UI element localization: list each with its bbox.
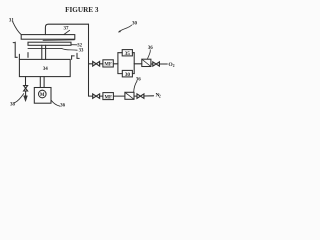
svg-text:2: 2 bbox=[173, 64, 175, 68]
svg-text:38: 38 bbox=[10, 103, 16, 108]
svg-text:30: 30 bbox=[132, 21, 138, 26]
filter U5 row2 bbox=[125, 92, 134, 99]
svg-text:MF: MF bbox=[104, 95, 112, 100]
svg-text:36: 36 bbox=[60, 104, 66, 109]
filter U3 row1 bbox=[142, 59, 151, 66]
MFC U4 row2 bbox=[103, 93, 114, 100]
chamber left wall stub bbox=[18, 54, 20, 59]
wire bbox=[100, 95, 103, 97]
svg-text:FIGURE 3: FIGURE 3 bbox=[65, 6, 99, 14]
wire bbox=[151, 63, 153, 65]
wire branch2 out bbox=[132, 73, 134, 75]
wire to filter2 bbox=[113, 95, 125, 97]
chamber right inner stub bbox=[72, 56, 75, 60]
svg-text:35: 35 bbox=[125, 51, 131, 57]
wire leader 30 bbox=[119, 25, 132, 32]
electrode plate 37 bbox=[21, 35, 75, 40]
wall dash bbox=[27, 53, 29, 58]
svg-text:2: 2 bbox=[159, 95, 161, 99]
box 34 bbox=[19, 59, 70, 76]
chamber right wall bbox=[77, 53, 79, 58]
wire rejoin vertical bbox=[133, 53, 135, 74]
wire to N2 bbox=[144, 95, 154, 97]
motor box bbox=[34, 88, 51, 104]
wire leader 32 bbox=[72, 44, 78, 46]
wafer 32 bbox=[28, 42, 71, 45]
wire leader 31 bbox=[13, 22, 22, 35]
box 35b bbox=[122, 70, 132, 77]
pedestal shaft bbox=[42, 45, 46, 59]
svg-text:34: 34 bbox=[43, 67, 49, 72]
wire corner to row2 valve bbox=[89, 95, 93, 97]
wire exhaust drop bbox=[25, 77, 27, 86]
wire bbox=[100, 63, 103, 65]
valve V4 row2 bbox=[137, 94, 144, 98]
wire leader 33 bbox=[62, 49, 77, 51]
wire to split bbox=[113, 63, 118, 65]
wire leader 36 row2 bbox=[134, 81, 137, 92]
wire leader 37 bbox=[64, 30, 70, 34]
motor M circle bbox=[39, 90, 47, 98]
wire gas feed top bbox=[45, 24, 88, 34]
wire main vertical bbox=[88, 24, 90, 96]
exhaust arrow bbox=[24, 96, 28, 102]
wire split vertical bbox=[117, 53, 119, 74]
wire leader 38 bbox=[15, 94, 24, 103]
valve V3 row2 bbox=[93, 94, 100, 98]
valve V2 row1 bbox=[153, 62, 160, 66]
wire stub to row1 valve bbox=[89, 63, 93, 65]
wire branch2 bbox=[118, 73, 122, 75]
wire leader 36 motor bbox=[51, 100, 60, 106]
svg-text:31: 31 bbox=[9, 18, 15, 23]
wire bbox=[134, 95, 137, 97]
wire to O2 bbox=[160, 63, 168, 65]
chuck line 33 bbox=[28, 48, 62, 50]
svg-text:M: M bbox=[40, 93, 45, 98]
wire branch1 out bbox=[132, 52, 134, 54]
MFC U2 row1 bbox=[103, 60, 113, 67]
svg-text:30: 30 bbox=[125, 72, 131, 78]
wire to filter1 bbox=[134, 63, 142, 65]
wire branch1 bbox=[118, 52, 122, 54]
valve 38 (vertical bowtie) bbox=[24, 86, 28, 92]
svg-text:33: 33 bbox=[79, 49, 84, 54]
motor shaft bbox=[40, 77, 44, 88]
wire leader 36 row1 bbox=[147, 50, 150, 59]
box 35a bbox=[122, 50, 132, 56]
wire below valve bbox=[25, 91, 27, 96]
svg-text:MF: MF bbox=[104, 63, 112, 68]
chamber left wall bbox=[13, 42, 17, 57]
valve V1 row1 bbox=[93, 62, 100, 67]
